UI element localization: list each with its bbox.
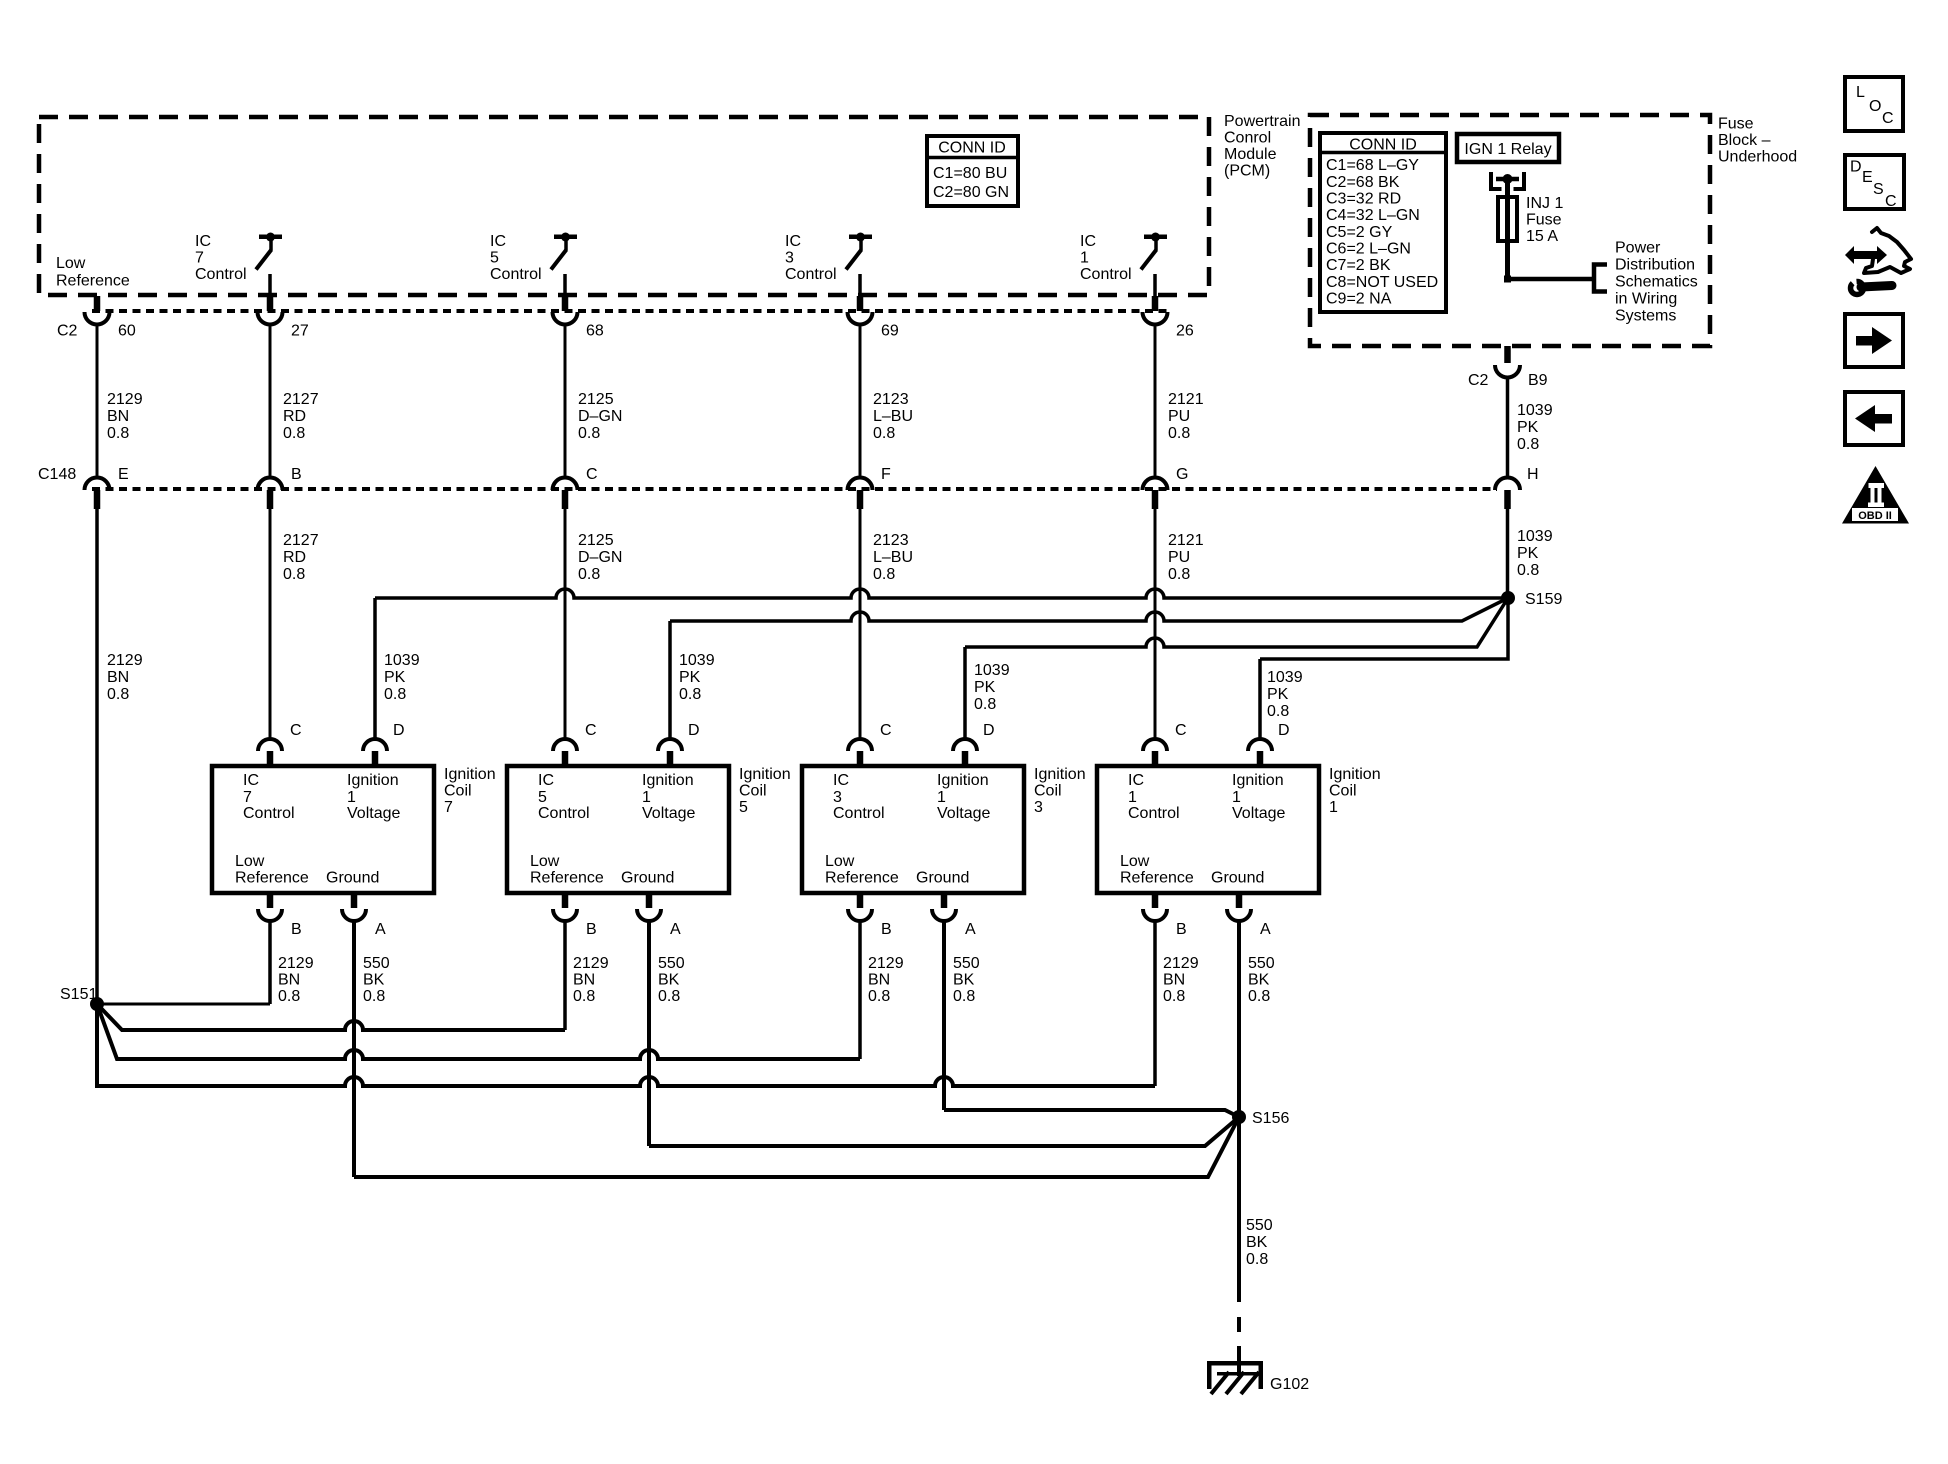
svg-text:Ground: Ground (621, 870, 674, 887)
svg-text:C2=80 GN: C2=80 GN (933, 184, 1009, 201)
svg-text:C6=2 L–GN: C6=2 L–GN (1326, 240, 1411, 257)
svg-text:D: D (393, 722, 405, 739)
svg-text:Ignition: Ignition (642, 772, 694, 789)
svg-text:Voltage: Voltage (937, 805, 990, 822)
svg-text:O: O (1869, 98, 1881, 115)
svg-text:Voltage: Voltage (642, 805, 695, 822)
svg-text:550: 550 (1246, 1217, 1273, 1234)
svg-text:0.8: 0.8 (1168, 566, 1190, 583)
svg-text:Ignition: Ignition (937, 772, 989, 789)
svg-text:1: 1 (1080, 250, 1089, 267)
svg-text:PK: PK (974, 679, 996, 696)
svg-text:BK: BK (1246, 1234, 1268, 1251)
svg-text:OBD II: OBD II (1858, 510, 1892, 522)
svg-text:C148: C148 (38, 466, 76, 483)
svg-text:Coil: Coil (1329, 783, 1357, 800)
svg-text:Module: Module (1224, 146, 1277, 163)
svg-text:Coil: Coil (1034, 783, 1062, 800)
svg-text:2123: 2123 (873, 391, 909, 408)
svg-text:C: C (1885, 193, 1897, 210)
svg-text:B: B (291, 466, 302, 483)
svg-text:550: 550 (953, 955, 980, 972)
svg-text:2127: 2127 (283, 532, 319, 549)
svg-text:Ground: Ground (326, 870, 379, 887)
svg-text:0.8: 0.8 (658, 988, 680, 1005)
svg-text:IC: IC (538, 772, 554, 789)
svg-text:IC: IC (195, 233, 211, 250)
svg-text:2129: 2129 (1163, 955, 1199, 972)
svg-text:1039: 1039 (1517, 402, 1553, 419)
svg-text:Voltage: Voltage (347, 805, 400, 822)
svg-text:PK: PK (679, 669, 701, 686)
svg-text:Powertrain: Powertrain (1224, 113, 1300, 130)
svg-text:Fuse: Fuse (1526, 212, 1562, 229)
svg-text:IC: IC (1128, 772, 1144, 789)
svg-text:Ignition: Ignition (347, 772, 399, 789)
svg-text:1: 1 (1329, 799, 1338, 816)
svg-text:L: L (1856, 84, 1865, 101)
svg-text:in Wiring: in Wiring (1615, 291, 1677, 308)
svg-text:Control: Control (833, 805, 885, 822)
svg-text:2125: 2125 (578, 532, 614, 549)
svg-text:C5=2 GY: C5=2 GY (1326, 224, 1393, 241)
svg-text:A: A (965, 921, 976, 938)
svg-text:RD: RD (283, 408, 306, 425)
svg-text:PU: PU (1168, 549, 1190, 566)
svg-text:0.8: 0.8 (363, 988, 385, 1005)
svg-text:F: F (881, 466, 891, 483)
svg-text:0.8: 0.8 (974, 696, 996, 713)
svg-text:5: 5 (490, 250, 499, 267)
svg-text:0.8: 0.8 (873, 566, 895, 583)
svg-text:C: C (290, 722, 302, 739)
svg-text:0.8: 0.8 (1248, 988, 1270, 1005)
svg-text:1039: 1039 (384, 652, 420, 669)
svg-text:C: C (1882, 110, 1894, 127)
svg-text:IC: IC (785, 233, 801, 250)
svg-text:Ignition: Ignition (1034, 766, 1086, 783)
svg-text:2121: 2121 (1168, 532, 1204, 549)
svg-text:B: B (881, 921, 892, 938)
svg-text:C: C (880, 722, 892, 739)
svg-text:7: 7 (444, 799, 453, 816)
svg-text:Systems: Systems (1615, 308, 1676, 325)
svg-text:0.8: 0.8 (578, 566, 600, 583)
svg-text:2129: 2129 (107, 652, 143, 669)
svg-text:C: C (586, 466, 598, 483)
svg-text:C4=32 L–GN: C4=32 L–GN (1326, 207, 1420, 224)
svg-text:B9: B9 (1528, 372, 1548, 389)
svg-text:0.8: 0.8 (578, 425, 600, 442)
svg-text:Reference: Reference (530, 870, 604, 887)
svg-text:0.8: 0.8 (283, 425, 305, 442)
svg-text:L–BU: L–BU (873, 408, 913, 425)
svg-text:C1=68 L–GY: C1=68 L–GY (1326, 157, 1419, 174)
svg-text:RD: RD (283, 549, 306, 566)
svg-text:BN: BN (107, 408, 129, 425)
svg-text:D: D (688, 722, 700, 739)
svg-text:C7=2 BK: C7=2 BK (1326, 257, 1391, 274)
svg-text:G: G (1176, 466, 1188, 483)
svg-text:3: 3 (833, 789, 842, 806)
svg-text:Control: Control (785, 266, 837, 283)
svg-text:2129: 2129 (278, 955, 314, 972)
svg-text:Schematics: Schematics (1615, 274, 1698, 291)
svg-text:1039: 1039 (1267, 669, 1303, 686)
svg-text:1039: 1039 (679, 652, 715, 669)
svg-text:E: E (118, 466, 129, 483)
svg-text:2129: 2129 (107, 391, 143, 408)
svg-text:0.8: 0.8 (278, 988, 300, 1005)
svg-text:Block –: Block – (1718, 132, 1771, 149)
svg-text:BN: BN (278, 972, 300, 989)
svg-text:C: C (585, 722, 597, 739)
svg-text:PK: PK (1517, 419, 1539, 436)
svg-text:Reference: Reference (825, 870, 899, 887)
svg-text:BN: BN (1163, 972, 1185, 989)
svg-text:550: 550 (1248, 955, 1275, 972)
svg-text:Voltage: Voltage (1232, 805, 1285, 822)
svg-text:69: 69 (881, 323, 899, 340)
svg-text:CONN ID: CONN ID (1349, 137, 1417, 154)
svg-text:INJ 1: INJ 1 (1526, 195, 1563, 212)
svg-text:1: 1 (347, 789, 356, 806)
svg-text:0.8: 0.8 (573, 988, 595, 1005)
svg-text:60: 60 (118, 323, 136, 340)
svg-text:3: 3 (1034, 799, 1043, 816)
svg-text:1: 1 (937, 789, 946, 806)
svg-text:Low: Low (530, 853, 560, 870)
svg-text:Coil: Coil (739, 783, 767, 800)
svg-text:550: 550 (658, 955, 685, 972)
svg-text:0.8: 0.8 (107, 686, 129, 703)
svg-text:BK: BK (1248, 972, 1270, 989)
svg-text:0.8: 0.8 (1517, 436, 1539, 453)
svg-text:C2: C2 (57, 323, 78, 340)
svg-text:S151: S151 (60, 986, 97, 1003)
svg-text:Distribution: Distribution (1615, 257, 1695, 274)
svg-text:0.8: 0.8 (1168, 425, 1190, 442)
svg-text:2125: 2125 (578, 391, 614, 408)
svg-text:Low: Low (1120, 853, 1150, 870)
svg-text:1: 1 (1128, 789, 1137, 806)
svg-text:1039: 1039 (1517, 528, 1553, 545)
svg-text:Reference: Reference (1120, 870, 1194, 887)
svg-text:Control: Control (490, 266, 542, 283)
svg-text:68: 68 (586, 323, 604, 340)
svg-text:0.8: 0.8 (1517, 562, 1539, 579)
svg-text:BN: BN (107, 669, 129, 686)
svg-text:Low: Low (56, 255, 86, 272)
svg-text:27: 27 (291, 323, 309, 340)
svg-text:5: 5 (739, 799, 748, 816)
svg-text:Underhood: Underhood (1718, 149, 1797, 166)
svg-text:Ignition: Ignition (1232, 772, 1284, 789)
svg-text:BK: BK (953, 972, 975, 989)
svg-text:0.8: 0.8 (953, 988, 975, 1005)
svg-text:5: 5 (538, 789, 547, 806)
svg-text:Reference: Reference (235, 870, 309, 887)
svg-text:1039: 1039 (974, 662, 1010, 679)
svg-text:0.8: 0.8 (107, 425, 129, 442)
svg-text:Power: Power (1615, 240, 1661, 257)
svg-text:B: B (291, 921, 302, 938)
svg-text:D–GN: D–GN (578, 408, 622, 425)
svg-text:B: B (1176, 921, 1187, 938)
svg-text:C2: C2 (1468, 372, 1489, 389)
svg-text:IC: IC (1080, 233, 1096, 250)
svg-text:0.8: 0.8 (1246, 1251, 1268, 1268)
svg-text:S156: S156 (1252, 1110, 1289, 1127)
svg-text:S: S (1873, 181, 1884, 198)
svg-text:IGN 1 Relay: IGN 1 Relay (1464, 141, 1551, 158)
svg-text:3: 3 (785, 250, 794, 267)
svg-text:D–GN: D–GN (578, 549, 622, 566)
svg-text:Control: Control (195, 266, 247, 283)
svg-text:Low: Low (235, 853, 265, 870)
svg-text:2123: 2123 (873, 532, 909, 549)
svg-text:Fuse: Fuse (1718, 116, 1754, 133)
svg-text:1: 1 (1232, 789, 1241, 806)
svg-text:Coil: Coil (444, 783, 472, 800)
svg-text:C: C (1175, 722, 1187, 739)
svg-text:D: D (983, 722, 995, 739)
svg-text:Low: Low (825, 853, 855, 870)
svg-text:Ground: Ground (916, 870, 969, 887)
svg-text:CONN ID: CONN ID (938, 140, 1006, 157)
svg-text:0.8: 0.8 (1163, 988, 1185, 1005)
svg-text:7: 7 (243, 789, 252, 806)
svg-text:BN: BN (868, 972, 890, 989)
svg-text:Conrol: Conrol (1224, 130, 1271, 147)
svg-text:D: D (1850, 159, 1862, 176)
svg-text:C8=NOT USED: C8=NOT USED (1326, 274, 1438, 291)
svg-text:IC: IC (833, 772, 849, 789)
svg-text:0.8: 0.8 (868, 988, 890, 1005)
svg-text:C9=2 NA: C9=2 NA (1326, 290, 1392, 307)
svg-text:0.8: 0.8 (384, 686, 406, 703)
svg-text:H: H (1527, 466, 1539, 483)
svg-text:Control: Control (1128, 805, 1180, 822)
svg-text:550: 550 (363, 955, 390, 972)
svg-text:PU: PU (1168, 408, 1190, 425)
svg-text:2129: 2129 (573, 955, 609, 972)
svg-text:C3=32 RD: C3=32 RD (1326, 191, 1401, 208)
svg-text:A: A (670, 921, 681, 938)
svg-text:PK: PK (1517, 545, 1539, 562)
svg-text:Control: Control (538, 805, 590, 822)
svg-text:D: D (1278, 722, 1290, 739)
svg-text:G102: G102 (1270, 1376, 1309, 1393)
svg-text:2129: 2129 (868, 955, 904, 972)
svg-text:(PCM): (PCM) (1224, 163, 1270, 180)
svg-text:BK: BK (658, 972, 680, 989)
svg-text:BN: BN (573, 972, 595, 989)
svg-text:BK: BK (363, 972, 385, 989)
svg-text:IC: IC (490, 233, 506, 250)
svg-text:IC: IC (243, 772, 259, 789)
svg-text:A: A (375, 921, 386, 938)
svg-text:Ignition: Ignition (1329, 766, 1381, 783)
svg-text:Ground: Ground (1211, 870, 1264, 887)
svg-text:0.8: 0.8 (679, 686, 701, 703)
svg-text:PK: PK (384, 669, 406, 686)
svg-text:Reference: Reference (56, 273, 130, 290)
svg-text:C2=68 BK: C2=68 BK (1326, 174, 1400, 191)
svg-text:C1=80 BU: C1=80 BU (933, 165, 1007, 182)
svg-text:S159: S159 (1525, 591, 1562, 608)
svg-text:Control: Control (1080, 266, 1132, 283)
svg-text:1: 1 (642, 789, 651, 806)
svg-text:Ignition: Ignition (739, 766, 791, 783)
svg-text:2121: 2121 (1168, 391, 1204, 408)
svg-text:0.8: 0.8 (283, 566, 305, 583)
svg-text:A: A (1260, 921, 1271, 938)
svg-text:E: E (1862, 169, 1873, 186)
svg-text:2127: 2127 (283, 391, 319, 408)
svg-text:PK: PK (1267, 686, 1289, 703)
svg-text:26: 26 (1176, 323, 1194, 340)
svg-text:0.8: 0.8 (1267, 703, 1289, 720)
svg-text:7: 7 (195, 250, 204, 267)
svg-text:15 A: 15 A (1526, 228, 1558, 245)
svg-text:B: B (586, 921, 597, 938)
svg-text:Control: Control (243, 805, 295, 822)
svg-text:Ignition: Ignition (444, 766, 496, 783)
svg-text:L–BU: L–BU (873, 549, 913, 566)
svg-text:0.8: 0.8 (873, 425, 895, 442)
